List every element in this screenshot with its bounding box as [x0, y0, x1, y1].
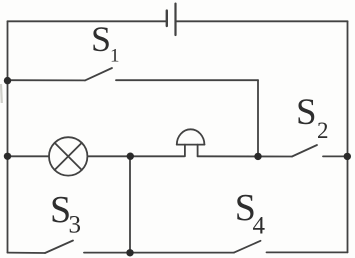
node right middle [344, 153, 351, 160]
wire bottom S3 to junction [84, 252, 234, 254]
switch S1 blade [85, 68, 112, 80]
node bottom / drop [126, 249, 133, 256]
node left upper [4, 77, 11, 84]
scan artifact left edge [0, 84, 3, 103]
wire middle (bell to S2) [198, 155, 292, 157]
wire S1 left [8, 79, 86, 81]
svg-text:2: 2 [317, 118, 329, 143]
svg-text:S: S [296, 92, 317, 133]
lamp L1 cross [55, 143, 82, 170]
node middle wire / drop [127, 153, 134, 160]
svg-text:S: S [91, 19, 111, 59]
bell left leg [184, 145, 186, 157]
svg-text:1: 1 [110, 46, 120, 67]
wire S1 branch drop [257, 80, 259, 156]
battery long plate [174, 4, 176, 35]
wire middle vertical drop (junction to bottom) [129, 156, 131, 252]
switch S4 blade [234, 241, 261, 253]
wire middle (lamp to bell) [88, 155, 184, 157]
node left middle [4, 153, 11, 160]
svg-text:3: 3 [69, 211, 82, 238]
battery short plate [166, 11, 168, 26]
bell right leg [197, 145, 199, 157]
wire left rail [7, 21, 9, 252]
wire bottom-right (S4 to right rail) [267, 251, 348, 253]
wire bottom-left (to S3) [8, 252, 46, 254]
svg-text:4: 4 [253, 213, 266, 240]
lamp L1 circle [49, 137, 87, 175]
wire S1 right [116, 79, 258, 81]
wire top-left (battery to left rail) [8, 20, 167, 22]
bell dome [177, 129, 205, 144]
wire top-right [176, 20, 348, 22]
wire right rail [347, 21, 349, 252]
wire middle right (S2 to right rail) [323, 155, 348, 157]
wire middle left (rail to lamp) [8, 155, 49, 157]
switch S3 blade [45, 241, 73, 254]
node S1 branch / middle wire [254, 153, 261, 160]
switch S2 blade [292, 145, 317, 157]
bell base line [177, 144, 205, 146]
